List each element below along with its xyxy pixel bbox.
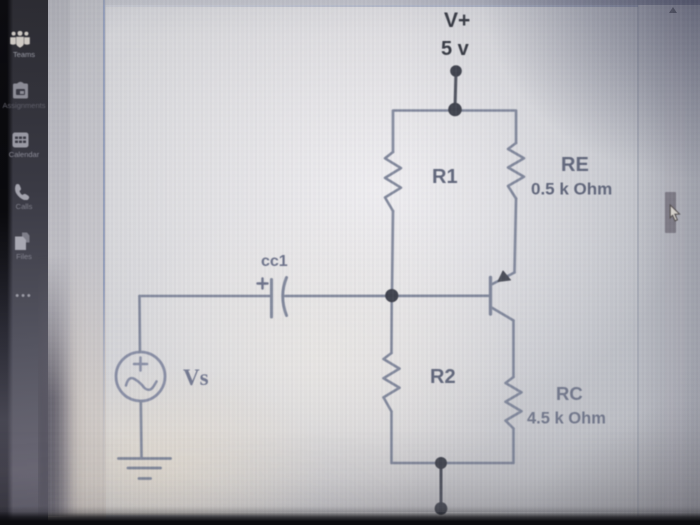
- node bottom junction: [435, 457, 447, 469]
- mouse cursor: [668, 204, 684, 224]
- More dots: [0, 290, 48, 302]
- svg-text:RC: RC: [556, 383, 583, 404]
- node bottom terminal: [435, 502, 448, 515]
- capacitor CC1 curved plate: [283, 278, 287, 316]
- sidebar soft right boundary (lower half): [38, 255, 86, 516]
- scrollbar track: [665, 0, 685, 516]
- Files label: [0, 252, 48, 261]
- picture right border line: [637, 0, 639, 516]
- resistor RE: [508, 143, 524, 199]
- resistor R1: [385, 152, 401, 211]
- svg-text:R1: R1: [432, 166, 458, 188]
- transistor Q1 collector diagonal: [492, 308, 514, 321]
- scrollbar up arrow: [669, 7, 677, 13]
- warm bottom-left tint: [48, 330, 348, 515]
- wire source bottom: [140, 401, 143, 459]
- svg-text:R2: R2: [430, 366, 456, 388]
- bottom pre-band dimming: [0, 430, 700, 512]
- wire base segment (capacitor to transistor): [285, 294, 489, 297]
- Calls sidebar icon: [14, 183, 30, 200]
- ground: [119, 459, 171, 479]
- node top junction: [448, 103, 462, 117]
- sidebar icons: [0, 0, 48, 525]
- left pane band between sidebar and picture: [48, 0, 106, 525]
- Calendar sidebar icon: [12, 131, 29, 148]
- svg-text:cc1: cc1: [261, 253, 288, 270]
- wire RC bottom to junction: [441, 429, 514, 464]
- source Vs circle: [116, 352, 165, 401]
- bottom black band: [0, 506, 700, 525]
- wire top rail: [393, 111, 516, 153]
- wire source top: [138, 296, 141, 352]
- wire R1 to base junction: [392, 211, 393, 296]
- label CC1 polarity plus: [258, 279, 268, 289]
- svg-text:RE: RE: [561, 154, 589, 176]
- svg-text:5 v: 5 v: [441, 38, 470, 60]
- top edge band above picture border: [103, 0, 700, 5]
- wire collector to RC: [512, 321, 515, 378]
- svg-text:0.5 k Ohm: 0.5 k Ohm: [531, 180, 612, 199]
- Teams sidebar icon: [9, 31, 31, 49]
- Calls label: [0, 202, 48, 211]
- svg-text:V+: V+: [444, 9, 470, 32]
- Calendar label: [0, 150, 48, 159]
- wire V+ stub: [455, 71, 456, 109]
- Teams label: [0, 50, 48, 59]
- transistor Q1 emitter arrow (PNP): [498, 271, 511, 282]
- scrollbar thumb: [665, 192, 676, 233]
- node base junction: [385, 289, 398, 302]
- dark sidebar: [0, 0, 48, 525]
- sidebar black left edge: [0, 0, 13, 525]
- source Vs plus sign: [134, 358, 147, 371]
- svg-text:Vs: Vs: [183, 365, 209, 390]
- transistor Q1 emitter diagonal: [492, 273, 515, 285]
- source Vs sine wave: [126, 378, 157, 390]
- picture left border (light blue line): [103, 0, 105, 516]
- transistor Q1 base bar: [489, 278, 492, 315]
- wire signal left segment (source to capacitor): [140, 295, 272, 298]
- resistor R2: [384, 353, 400, 412]
- resistor RC: [506, 377, 522, 429]
- Files sidebar icon: [14, 232, 30, 251]
- picture top border line: [104, 5, 638, 7]
- svg-text:4.5 k Ohm: 4.5 k Ohm: [527, 410, 606, 428]
- wire R2 bottom to junction: [392, 412, 442, 464]
- wire bottom stub: [440, 463, 443, 508]
- wire RE to emitter corner: [515, 199, 517, 273]
- Assignments sidebar icon: [12, 81, 29, 100]
- wire R2 top: [390, 296, 393, 353]
- node V+ terminal: [450, 65, 462, 77]
- Assignments label: [0, 101, 50, 110]
- capacitor CC1 flat plate: [270, 280, 273, 318]
